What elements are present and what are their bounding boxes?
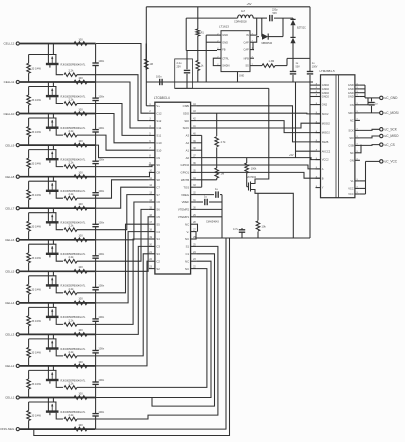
svg-text:S4: S4 <box>156 237 160 241</box>
svg-text:CELL2: CELL2 <box>5 364 15 368</box>
svg-text:SDO: SDO <box>183 111 190 115</box>
svg-text:NC: NC <box>185 222 189 226</box>
svg-text:C7: C7 <box>156 185 160 189</box>
svg-text:33 1/4W: 33 1/4W <box>32 352 42 355</box>
svg-text:IN: IN <box>246 33 249 37</box>
svg-text:NC: NC <box>350 119 354 123</box>
svg-text:2N7002: 2N7002 <box>247 175 257 179</box>
svg-text:RJK0305DPB00#GA7L: RJK0305DPB00#GA7L <box>61 95 87 98</box>
svg-text:S3: S3 <box>156 252 160 256</box>
svg-text:100: 100 <box>78 297 83 301</box>
svg-text:S12: S12 <box>156 119 161 123</box>
svg-text:V+: V+ <box>156 104 160 108</box>
svg-text:uC_SCK: uC_SCK <box>385 128 398 132</box>
svg-text:RJK0305DPB00#GA7L: RJK0305DPB00#GA7L <box>61 190 87 193</box>
svg-text:1.3M: 1.3M <box>269 60 275 63</box>
svg-text:FB: FB <box>222 48 226 52</box>
svg-text:C6: C6 <box>156 200 160 204</box>
svg-text:100n: 100n <box>98 284 104 288</box>
svg-text:2.2k: 2.2k <box>69 69 75 73</box>
svg-text:100n: 100n <box>98 189 104 193</box>
svg-text:CELL6: CELL6 <box>5 238 15 242</box>
svg-text:S11: S11 <box>156 134 161 138</box>
svg-text:SDI: SDI <box>349 136 354 140</box>
svg-text:100: 100 <box>78 391 83 395</box>
svg-text:GND2: GND2 <box>322 83 330 87</box>
svg-text:33 1/4W: 33 1/4W <box>32 289 42 292</box>
svg-text:4u7: 4u7 <box>241 10 246 13</box>
svg-text:uC_CS: uC_CS <box>385 143 395 147</box>
svg-text:CTRL: CTRL <box>222 56 229 60</box>
svg-text:GND2: GND2 <box>322 87 330 91</box>
svg-text:33 1/4W: 33 1/4W <box>32 99 42 102</box>
svg-text:100n: 100n <box>98 252 104 256</box>
svg-text:MISO2: MISO2 <box>322 131 331 135</box>
svg-text:VREF: VREF <box>182 200 190 204</box>
svg-text:GND: GND <box>348 91 354 95</box>
svg-text:SDI: SDI <box>184 119 189 123</box>
svg-text:100: 100 <box>78 265 83 269</box>
svg-text:4.7k: 4.7k <box>221 140 227 144</box>
svg-text:BZT52C: BZT52C <box>297 27 306 30</box>
svg-text:CSBI: CSBI <box>183 104 190 108</box>
svg-text:uC_MOSI: uC_MOSI <box>385 111 399 115</box>
svg-text:VTEMP2: VTEMP2 <box>178 208 190 212</box>
svg-text:GND: GND <box>239 76 244 78</box>
svg-text:GPIO1: GPIO1 <box>181 171 190 175</box>
svg-text:SS2B: SS2B <box>322 140 329 144</box>
svg-text:CDRH5D28: CDRH5D28 <box>234 21 247 24</box>
svg-text:C12: C12 <box>156 111 162 115</box>
svg-text:33 1/4W: 33 1/4W <box>32 162 42 165</box>
svg-text:uC_MISO: uC_MISO <box>385 134 400 138</box>
svg-text:CAP: CAP <box>243 40 249 44</box>
svg-text:CELL10: CELL10 <box>3 112 14 116</box>
svg-text:A3: A3 <box>186 134 190 138</box>
svg-text:GND: GND <box>348 83 354 87</box>
svg-text:RJK0305DPB00#GA7L: RJK0305DPB00#GA7L <box>61 63 87 66</box>
svg-text:100: 100 <box>78 423 83 427</box>
svg-text:VCC2: VCC2 <box>322 158 329 162</box>
svg-text:33 1/4W: 33 1/4W <box>32 225 42 228</box>
svg-text:100n: 100n <box>98 378 104 382</box>
svg-text:ON: ON <box>350 158 354 162</box>
svg-text:MBR0540: MBR0540 <box>262 42 273 45</box>
svg-text:WDTB: WDTB <box>181 178 189 182</box>
svg-text:CELL9: CELL9 <box>5 143 15 147</box>
svg-text:CELL3: CELL3 <box>5 333 15 337</box>
svg-text:+5V: +5V <box>246 2 251 6</box>
svg-text:VTEMP1: VTEMP1 <box>178 215 190 219</box>
svg-text:100n: 100n <box>156 76 162 79</box>
svg-text:ON2: ON2 <box>322 103 328 107</box>
svg-text:GND2: GND2 <box>322 91 330 95</box>
svg-text:CMHZ4643: CMHZ4643 <box>206 221 219 224</box>
svg-text:A0: A0 <box>186 156 190 160</box>
svg-text:CONN-NEG: CONN-NEG <box>0 427 15 431</box>
svg-text:33 1/4W: 33 1/4W <box>32 194 42 197</box>
svg-text:100n: 100n <box>98 315 104 319</box>
svg-text:CELL7: CELL7 <box>5 206 15 210</box>
svg-text:100: 100 <box>78 107 83 111</box>
svg-text:B: B <box>322 176 324 180</box>
svg-text:S1: S1 <box>186 245 190 249</box>
svg-text:TOS: TOS <box>183 185 189 189</box>
svg-text:V-: V- <box>186 230 189 234</box>
svg-text:100V: 100V <box>312 65 318 68</box>
svg-text:NC: NC <box>185 259 189 263</box>
svg-text:100: 100 <box>78 202 83 206</box>
svg-text:33 1/4W: 33 1/4W <box>32 257 42 260</box>
svg-text:100n: 100n <box>98 126 104 130</box>
svg-text:A: A <box>322 167 324 171</box>
svg-text:100: 100 <box>78 37 83 41</box>
svg-text:LTC6803-4: LTC6803-4 <box>154 96 170 100</box>
svg-text:50V: 50V <box>296 65 301 68</box>
svg-text:100n: 100n <box>98 59 104 63</box>
svg-text:NC: NC <box>350 151 354 155</box>
svg-text:50V: 50V <box>273 12 278 15</box>
svg-text:33 1/4W: 33 1/4W <box>32 320 42 323</box>
svg-text:VCC: VCC <box>348 187 354 191</box>
svg-text:RJK0305DPB00#GA7L: RJK0305DPB00#GA7L <box>61 222 87 225</box>
svg-text:GPIO2: GPIO2 <box>181 163 190 167</box>
svg-text:SDO: SDO <box>348 111 354 115</box>
svg-text:100k: 100k <box>251 167 257 171</box>
svg-text:S7: S7 <box>156 193 160 197</box>
svg-text:RJK0305DPB00#GA7L: RJK0305DPB00#GA7L <box>61 127 87 130</box>
svg-text:S2: S2 <box>156 267 160 271</box>
svg-text:S9: S9 <box>156 163 160 167</box>
svg-text:CAP: CAP <box>243 48 249 52</box>
svg-text:SS: SS <box>245 64 249 68</box>
svg-text:10k: 10k <box>262 225 267 229</box>
svg-text:CELL5: CELL5 <box>5 270 15 274</box>
svg-text:SHDN: SHDN <box>222 64 229 68</box>
svg-text:CSB: CSB <box>348 144 354 148</box>
svg-text:C1: C1 <box>186 252 190 256</box>
svg-text:25V: 25V <box>177 66 182 69</box>
svg-text:GND: GND <box>222 33 228 37</box>
svg-text:100: 100 <box>78 360 83 364</box>
svg-text:100: 100 <box>78 234 83 238</box>
svg-text:S8: S8 <box>156 178 160 182</box>
svg-text:100: 100 <box>78 76 83 80</box>
svg-text:RJK0305DPB00#GA7L: RJK0305DPB00#GA7L <box>61 379 87 382</box>
svg-text:VREG: VREG <box>181 193 189 197</box>
svg-text:C5: C5 <box>156 215 160 219</box>
svg-text:C10: C10 <box>156 141 162 145</box>
svg-text:A1: A1 <box>186 148 190 152</box>
svg-text:C3: C3 <box>156 245 160 249</box>
svg-text:ON: ON <box>350 103 354 107</box>
svg-text:SCK: SCK <box>348 129 354 133</box>
svg-text:uC_GND: uC_GND <box>385 96 399 100</box>
svg-text:RJK0305DPB00#GA7L: RJK0305DPB00#GA7L <box>61 348 87 351</box>
svg-text:CELL11: CELL11 <box>4 80 15 84</box>
svg-text:S6: S6 <box>156 208 160 212</box>
svg-text:A2: A2 <box>186 141 190 145</box>
svg-text:VL: VL <box>351 179 355 183</box>
svg-text:SCKI: SCKI <box>183 126 190 130</box>
svg-text:C4: C4 <box>156 230 160 234</box>
svg-text:100n: 100n <box>98 410 104 414</box>
svg-text:VCC: VCC <box>348 192 354 196</box>
svg-text:C11: C11 <box>156 126 161 130</box>
svg-text:S5: S5 <box>156 222 160 226</box>
svg-text:CELL8: CELL8 <box>5 175 15 179</box>
svg-text:MOSI2: MOSI2 <box>322 121 331 125</box>
svg-text:100n: 100n <box>98 221 104 225</box>
svg-text:CELL4: CELL4 <box>5 301 15 305</box>
svg-text:NC: NC <box>185 237 189 241</box>
svg-text:RJK0305DPB00#GA7L: RJK0305DPB00#GA7L <box>61 285 87 288</box>
svg-text:100: 100 <box>78 139 83 143</box>
svg-text:GND: GND <box>348 87 354 91</box>
svg-text:RJK0305DPB00#GA7L: RJK0305DPB00#GA7L <box>61 411 87 414</box>
svg-text:100: 100 <box>78 171 83 175</box>
svg-text:NFB: NFB <box>244 56 249 60</box>
svg-text:4.7u: 4.7u <box>233 227 239 231</box>
svg-text:CELL1: CELL1 <box>5 396 15 400</box>
svg-text:NC: NC <box>185 267 189 271</box>
svg-text:100: 100 <box>78 328 83 332</box>
svg-text:33 1/4W: 33 1/4W <box>32 415 42 418</box>
svg-text:33 1/4W: 33 1/4W <box>32 383 42 386</box>
svg-text:+5V: +5V <box>289 154 294 157</box>
svg-text:SCK2: SCK2 <box>322 112 329 116</box>
svg-text:Y: Y <box>322 186 324 190</box>
svg-text:RJK0305DPB00#GA7L: RJK0305DPB00#GA7L <box>61 253 87 256</box>
svg-text:GND2: GND2 <box>322 95 330 99</box>
svg-text:GND: GND <box>348 95 354 99</box>
svg-text:33 1/4W: 33 1/4W <box>32 131 42 134</box>
svg-text:S10: S10 <box>156 148 161 152</box>
svg-text:1M: 1M <box>150 63 153 66</box>
svg-text:LTM2881-5: LTM2881-5 <box>320 69 335 73</box>
svg-text:100n: 100n <box>98 347 104 351</box>
svg-text:AVCC2: AVCC2 <box>322 149 331 153</box>
svg-text:CELL12: CELL12 <box>3 42 14 46</box>
svg-text:33 1/4W: 33 1/4W <box>32 68 42 71</box>
svg-text:RJK0305DPB00#GA7L: RJK0305DPB00#GA7L <box>61 159 87 162</box>
svg-text:uC_VCC: uC_VCC <box>385 160 398 164</box>
svg-text:C9: C9 <box>156 156 160 160</box>
svg-text:GND: GND <box>222 40 228 44</box>
svg-text:RJK0305DPB00#GA7L: RJK0305DPB00#GA7L <box>61 316 87 319</box>
svg-text:C2: C2 <box>156 259 160 263</box>
svg-text:100n: 100n <box>98 94 104 98</box>
svg-text:C8: C8 <box>156 171 160 175</box>
svg-text:LT1613: LT1613 <box>219 25 229 29</box>
